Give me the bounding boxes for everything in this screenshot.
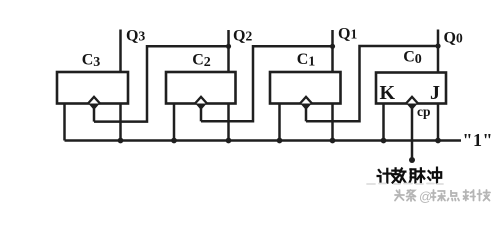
wire logic-1 bus: [65, 139, 462, 142]
wire C3 K input drop: [119, 104, 122, 141]
wire C2 J input drop: [173, 104, 176, 141]
wm char tan: [432, 190, 446, 201]
wire C1 J input drop: [278, 104, 281, 141]
wire C0 clock input from counting pulse: [411, 104, 414, 160]
svg-text:J: J: [430, 82, 440, 104]
wm char ke: [464, 190, 476, 201]
char ji: [378, 169, 392, 183]
clock edge symbol of C0: [406, 97, 418, 110]
junction C0 J on bus: [435, 138, 441, 144]
node counting pulse terminal dot: [409, 157, 415, 163]
wm char tiao: [407, 190, 416, 201]
svg-text:"1": "1": [463, 130, 494, 150]
wire C3 J input drop: [63, 104, 66, 141]
junction Q0 branch: [435, 43, 440, 48]
char chong: [428, 168, 441, 183]
junction C2 K on bus: [226, 138, 232, 144]
wire C1 clock stem: [305, 104, 308, 121]
wire C3 clock stem: [93, 104, 96, 122]
junction Q1 branch: [330, 44, 335, 49]
wire C2 clock stem: [200, 104, 203, 121]
clock edge symbol of C1: [300, 97, 312, 110]
wm char ji: [478, 190, 491, 201]
char mai: [410, 168, 425, 182]
junction C2 J on bus: [171, 138, 177, 144]
junction C1 K on bus: [330, 138, 336, 144]
wire Q1 output (vertical): [331, 30, 334, 72]
wire C0 J input drop: [437, 104, 440, 141]
wire Q0 to C1 clock feed: [306, 46, 438, 121]
wire C2 K input drop: [227, 104, 230, 141]
svg-text:C3: C3: [82, 52, 101, 71]
svg-text:C2: C2: [192, 52, 211, 71]
watermark toutiao tandian keji (gray strokes): [395, 189, 490, 204]
junction C3 K on bus: [118, 138, 124, 144]
wire C1 K input drop: [331, 104, 334, 141]
svg-text:Q2: Q2: [233, 28, 252, 45]
clock edge symbol of C2: [195, 97, 207, 110]
flip-flop C1 box: [270, 72, 341, 104]
wire Q3 output (vertical): [119, 30, 122, 73]
svg-text:C0: C0: [403, 49, 422, 68]
svg-text:Q1: Q1: [338, 26, 357, 43]
svg-text:@: @: [419, 189, 432, 204]
watermark faint upper fragment row: [367, 183, 443, 186]
wm char tou: [395, 190, 404, 201]
clock edge symbol of C3: [88, 97, 100, 110]
char shu: [392, 168, 405, 182]
junction Q2 branch: [226, 44, 231, 49]
wire Q2 output (vertical): [227, 30, 230, 72]
junction C0 K on bus: [381, 138, 387, 144]
svg-text:Q3: Q3: [126, 28, 145, 45]
wire Q2 to C3 clock feed: [94, 46, 229, 121]
flip-flop C3 box: [57, 72, 128, 104]
wire C0 K input drop: [382, 104, 385, 141]
wm char dian: [448, 190, 460, 201]
svg-text:Q0: Q0: [444, 30, 463, 47]
value label counting pulse (ji shu mai chong) drawn strokes: [378, 168, 442, 183]
wire Q1 to C2 clock feed: [201, 46, 333, 121]
flip-flop C2 box: [166, 72, 236, 104]
svg-text:cp: cp: [417, 104, 431, 119]
svg-text:C1: C1: [297, 51, 316, 70]
junction C1 J on bus: [277, 138, 283, 144]
flip-flop C0 box: [376, 73, 446, 104]
svg-text:K: K: [380, 82, 396, 104]
wire Q0 output (vertical): [437, 30, 440, 73]
